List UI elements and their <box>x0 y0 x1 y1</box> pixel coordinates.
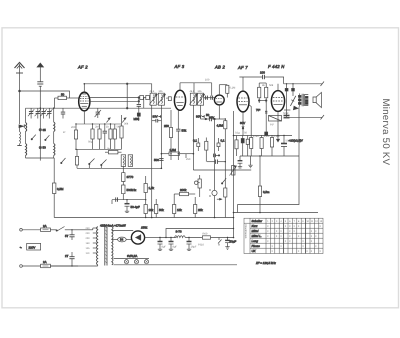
svg-text:×: × <box>293 224 295 228</box>
resistor 50k <box>91 124 94 149</box>
svg-text:×: × <box>276 234 278 238</box>
svg-text:500kHz: 500kHz <box>127 188 137 192</box>
antenna coupling line <box>39 86 41 160</box>
wire B+ bypass <box>166 229 234 238</box>
IF transformer T1 <box>149 93 165 105</box>
wire cath <box>277 111 279 135</box>
resistor 1,5m <box>250 135 253 156</box>
svg-text:0,1: 0,1 <box>221 139 225 143</box>
capacitor 0,1uF ps <box>225 238 230 250</box>
svg-text:30k: 30k <box>124 123 129 126</box>
svg-text:6V/0,5A: 6V/0,5A <box>127 254 137 258</box>
resistor 100k pot <box>195 175 202 197</box>
svg-text:2: 2 <box>272 220 274 223</box>
svg-text:×: × <box>302 244 304 248</box>
svg-text:50μ: 50μ <box>88 141 93 144</box>
svg-text:S-73: S-73 <box>176 230 182 234</box>
svg-text:×: × <box>315 234 317 238</box>
svg-text:×: × <box>285 224 287 228</box>
svg-text:200: 200 <box>71 126 76 129</box>
svg-text:15k: 15k <box>177 208 182 212</box>
svg-text:0,5m: 0,5m <box>263 190 270 194</box>
svg-text:0,5M: 0,5M <box>57 187 64 191</box>
wire mains to taps <box>50 228 97 266</box>
svg-text:2T: 2T <box>65 254 69 258</box>
wire row2 <box>240 155 299 157</box>
antenna 2 (earth/aux) <box>37 63 43 86</box>
svg-text:150: 150 <box>86 242 91 245</box>
svg-text:×: × <box>280 244 282 248</box>
electrolytic 16uF b <box>187 238 192 251</box>
svg-text:2A: 2A <box>43 260 47 264</box>
resistor 5k <box>113 124 116 149</box>
svg-text:50: 50 <box>43 146 47 150</box>
switch S3 <box>101 160 107 169</box>
svg-text:1561: 1561 <box>141 226 148 230</box>
svg-text:125: 125 <box>86 247 91 250</box>
IFT labels <box>150 90 208 100</box>
svg-text:Kurz: Kurz <box>252 224 258 228</box>
wire speaker frame top <box>284 82 324 87</box>
svg-text:11: 11 <box>311 220 314 223</box>
svg-text:Mittel: Mittel <box>252 229 259 233</box>
wire AF2 top to IFT <box>84 84 151 93</box>
svg-text:×: × <box>311 239 313 243</box>
lamp 3 <box>144 260 148 264</box>
svg-text:305: 305 <box>159 90 164 93</box>
power input terminals <box>20 229 23 268</box>
wire screen feed <box>126 83 128 109</box>
svg-text:×: × <box>306 249 308 253</box>
capacitor blk <box>241 136 244 157</box>
svg-text:×: × <box>315 229 317 233</box>
svg-text:1,2m: 1,2m <box>264 135 270 138</box>
HT oval 54 <box>112 237 132 242</box>
capacitor 0,1 b <box>217 138 220 151</box>
svg-text:110: 110 <box>86 252 90 255</box>
svg-text:4k: 4k <box>262 84 265 87</box>
electrolytic 16uF <box>169 238 174 251</box>
trimmer capacitor C2 <box>35 108 41 118</box>
wire AF2 anode row <box>90 98 150 109</box>
svg-text:×: × <box>285 239 287 243</box>
svg-text:AF 3: AF 3 <box>174 64 185 69</box>
svg-text:×: × <box>311 234 313 238</box>
svg-text:12: 12 <box>315 220 318 223</box>
capacitor 50uF out <box>284 116 290 119</box>
svg-text:70²: 70² <box>256 108 260 112</box>
svg-text:4²: 4² <box>63 131 65 134</box>
lamp 2 <box>134 260 138 264</box>
svg-text:ZF = 128,5 kHz: ZF = 128,5 kHz <box>255 261 276 265</box>
trimmer capacitor C1 <box>28 108 34 118</box>
resistor 1k <box>109 124 112 149</box>
svg-text:46,5: 46,5 <box>150 90 155 93</box>
capacitor 0,1 <box>103 124 107 149</box>
electrolytic 50uF osc <box>125 200 130 213</box>
resistor 5k h <box>105 151 122 154</box>
heater wires <box>114 259 238 265</box>
resistor AVC 0,1M <box>205 138 208 162</box>
wire AF2 grid line <box>90 101 140 103</box>
svg-text:F610: F610 <box>198 244 204 247</box>
switch mains <box>56 227 78 232</box>
svg-text:50: 50 <box>206 113 210 117</box>
svg-text:×: × <box>311 229 313 233</box>
fuse F2 <box>22 264 78 268</box>
capacitor 50k <box>176 111 180 154</box>
svg-text:6: 6 <box>289 220 291 223</box>
svg-text:0,1M: 0,1M <box>230 87 236 90</box>
phono jack <box>209 190 217 196</box>
svg-text:UK: UK <box>252 249 257 253</box>
svg-text:×: × <box>280 234 282 238</box>
svg-text:×: × <box>289 234 291 238</box>
svg-text:0,1: 0,1 <box>193 139 197 143</box>
resistor 50k g <box>258 83 261 103</box>
wire jack drop <box>214 118 216 217</box>
resistor 50 (antenna series) <box>55 96 79 108</box>
capacitor 50c <box>246 136 249 157</box>
capacitor stack M58 <box>137 97 141 121</box>
wire AF7 cathode drop <box>242 112 244 136</box>
choke <box>175 236 203 238</box>
svg-text:5: 5 <box>285 220 287 223</box>
tone pot <box>284 96 298 110</box>
svg-text:1,5M: 1,5M <box>170 148 177 152</box>
svg-text:×: × <box>298 234 300 238</box>
wire af3 drops2 <box>171 154 186 160</box>
wire IFT drops <box>152 105 201 217</box>
svg-text:100: 100 <box>205 79 210 82</box>
speaker <box>313 92 321 107</box>
resistor 2k jack <box>224 162 227 218</box>
resistor 15k <box>173 194 176 218</box>
svg-text:2A: 2A <box>43 224 47 228</box>
svg-text:90V ⊣: 90V ⊣ <box>153 114 162 118</box>
capacitor line1 <box>69 230 74 240</box>
capacitor 0,1uF <box>270 135 273 156</box>
svg-text:220: 220 <box>86 232 91 235</box>
wire cathode bus <box>76 123 122 125</box>
svg-text:4: 4 <box>280 220 282 223</box>
oscillator coil box S770 <box>121 155 132 200</box>
svg-text:250: 250 <box>164 124 169 128</box>
feedback cap b <box>292 84 295 96</box>
tube AF2 <box>79 84 90 111</box>
svg-text:54: 54 <box>120 238 124 242</box>
rectifier tube 1561 <box>112 231 145 245</box>
svg-text:10: 10 <box>306 220 309 223</box>
resistor 250 <box>169 110 172 154</box>
switch S4 <box>61 158 66 164</box>
svg-text:8: 8 <box>298 220 300 223</box>
transformer taps <box>93 228 98 253</box>
lamp 1 <box>124 260 128 264</box>
svg-text:200: 200 <box>86 237 91 240</box>
tube AF7 <box>237 77 249 112</box>
coil L6 <box>129 156 132 165</box>
tube AB2 <box>214 85 224 105</box>
ground sym <box>248 156 252 168</box>
wire osc lower row <box>112 199 146 201</box>
table <box>244 218 323 253</box>
svg-text:×: × <box>276 229 278 233</box>
resistor R60 <box>202 236 233 239</box>
coupling cap AF3 <box>168 97 171 101</box>
band switch S1a <box>31 135 36 140</box>
svg-text:×: × <box>302 239 304 243</box>
trimmer capacitor C3 <box>40 108 46 118</box>
resistor 1,2m <box>260 135 263 156</box>
svg-text:2M: 2M <box>95 126 99 129</box>
wire speaker frame bottom <box>284 115 324 120</box>
svg-text:16μF: 16μF <box>191 246 197 249</box>
ground arrow F442N <box>277 136 280 142</box>
resistor 0,5m riser <box>258 156 261 213</box>
svg-text:×: × <box>267 224 269 228</box>
resistor cath <box>269 116 282 122</box>
svg-text:Drucktasten: Drucktasten <box>244 225 247 239</box>
svg-text:50k: 50k <box>159 208 164 212</box>
svg-text:305: 305 <box>198 90 203 93</box>
resistor 2M <box>75 149 78 168</box>
coil L1 <box>26 108 27 158</box>
svg-text:50μF: 50μF <box>283 112 289 115</box>
wire row <box>234 135 293 137</box>
jack pin arrow <box>217 198 222 200</box>
resistor 0,5M <box>53 158 56 218</box>
svg-text:10k: 10k <box>149 208 154 212</box>
capacitor 50 det <box>201 117 226 121</box>
wire <box>83 111 85 124</box>
capacitor 110b <box>146 95 150 99</box>
svg-text:×: × <box>319 224 321 228</box>
capacitor line2 <box>69 252 74 266</box>
svg-text:500: 500 <box>154 158 159 162</box>
svg-text:4,5M: 4,5M <box>217 124 224 128</box>
resistor 0,1M g <box>265 83 268 103</box>
svg-text:5k: 5k <box>117 126 120 129</box>
output transformer <box>298 93 303 106</box>
svg-text:220V: 220V <box>29 245 36 249</box>
svg-text:AB 2: AB 2 <box>214 64 225 69</box>
svg-text:80V: 80V <box>240 121 245 125</box>
wave trap coil <box>17 127 21 145</box>
svg-text:M58: M58 <box>134 117 140 121</box>
resistor 25k <box>194 197 197 218</box>
resistor 4,5M <box>224 119 227 162</box>
table x marks <box>267 224 321 253</box>
IF transformer T2 <box>190 93 205 105</box>
svg-text:×: × <box>267 229 269 233</box>
wire tuning rail <box>26 107 172 109</box>
tube AF3 <box>174 83 185 111</box>
wire mid feed <box>193 169 251 171</box>
svg-text:AF 2: AF 2 <box>77 64 88 69</box>
svg-text:×: × <box>267 239 269 243</box>
wire AB2 cathode <box>218 105 220 119</box>
trimmer capacitor C4 <box>46 108 52 118</box>
fuse F1 <box>22 228 56 232</box>
svg-text:50k: 50k <box>269 84 274 87</box>
capacitor 500 <box>159 159 163 161</box>
svg-text:1,5m: 1,5m <box>253 135 259 138</box>
resistor 50k b <box>155 199 158 218</box>
capacitor 110a <box>140 95 144 99</box>
switch arrow b <box>122 118 126 123</box>
svg-text:9: 9 <box>302 220 304 223</box>
svg-text:250: 250 <box>186 158 191 161</box>
svg-text:90V ⊣: 90V ⊣ <box>196 114 205 118</box>
wire B+ bus <box>234 212 319 214</box>
svg-text:100: 100 <box>260 71 265 75</box>
capacitor 100 <box>263 75 270 79</box>
svg-text:S770: S770 <box>127 175 134 179</box>
svg-text:50k: 50k <box>182 129 187 133</box>
svg-text:Minerva 50 KV: Minerva 50 KV <box>380 99 391 166</box>
svg-text:Lang: Lang <box>252 239 259 243</box>
capacitor 0,1 a <box>197 138 200 151</box>
resistor 200k h <box>174 192 195 195</box>
svg-text:×: × <box>271 244 273 248</box>
svg-text:×: × <box>311 249 313 253</box>
svg-text:×: × <box>319 249 321 253</box>
capacitor IFT foot <box>152 119 162 123</box>
svg-text:25k: 25k <box>198 208 203 212</box>
volume pot <box>230 166 237 176</box>
svg-text:1k: 1k <box>106 126 109 129</box>
resistor 100k <box>219 85 229 98</box>
svg-text:×: × <box>267 234 269 238</box>
svg-text:8μF: 8μF <box>173 246 178 249</box>
switch det <box>221 178 226 184</box>
svg-text:8b: 8b <box>166 97 169 100</box>
wire top coupling row <box>239 76 262 78</box>
wire tuning bottom <box>26 157 55 159</box>
capacitor 10 <box>112 197 118 204</box>
svg-text:7: 7 <box>294 220 296 223</box>
svg-text:13: 13 <box>320 220 323 223</box>
svg-text:200k: 200k <box>180 188 187 192</box>
svg-text:50μF: 50μF <box>230 240 237 244</box>
svg-text:50: 50 <box>61 92 65 96</box>
svg-text:415V 4mA +170mW: 415V 4mA +170mW <box>100 224 126 228</box>
capacitor 50uF b <box>281 135 287 156</box>
capacitor pad2 <box>61 108 65 118</box>
wire g row <box>259 82 266 84</box>
wire AF7 screen riser <box>233 111 235 238</box>
coil L5 <box>122 156 125 165</box>
svg-text:3: 3 <box>276 220 278 223</box>
svg-text:×: × <box>298 224 300 228</box>
electrolytic 8uF <box>158 238 163 251</box>
svg-text:×: × <box>293 229 295 233</box>
svg-text:50: 50 <box>244 132 247 135</box>
svg-text:AF 7: AF 7 <box>237 65 248 70</box>
wire AF3 link row <box>204 83 215 100</box>
svg-text:0,1μF: 0,1μF <box>274 135 281 138</box>
wire to F442N top <box>270 77 284 84</box>
trimmer padder AF2 <box>95 108 101 118</box>
wire antenna bus <box>20 91 70 98</box>
speaker voice coil <box>304 95 308 106</box>
wire AF7 anode <box>249 105 252 136</box>
svg-text:×: × <box>271 249 273 253</box>
wire row <box>76 148 122 150</box>
resistor 300 <box>98 124 101 149</box>
power transformer <box>97 225 114 266</box>
svg-text:F6²: F6² <box>270 124 274 127</box>
AF2 labels <box>63 79 292 249</box>
coil L2 <box>54 108 55 158</box>
F442N grid join <box>258 100 267 136</box>
antenna 1 <box>15 63 25 92</box>
svg-text:×: × <box>315 244 317 248</box>
B+ switch <box>218 238 222 246</box>
wire det row <box>207 160 226 164</box>
wave trap arrow <box>19 91 24 128</box>
svg-text:65: 65 <box>43 128 47 132</box>
svg-text:×: × <box>289 224 291 228</box>
svg-text:∿: ∿ <box>20 246 23 250</box>
svg-text:×: × <box>298 249 300 253</box>
resistor 30k <box>120 115 123 149</box>
svg-text:0,1μ: 0,1μ <box>235 132 241 135</box>
band switch S1b <box>45 135 50 140</box>
svg-text:Schalter: Schalter <box>252 219 264 223</box>
B+ line <box>145 237 159 239</box>
svg-text:8μF: 8μF <box>162 246 167 249</box>
capacitor 200 <box>214 154 220 158</box>
switch S2 <box>89 159 95 169</box>
wire stub <box>237 205 239 213</box>
svg-text:Phono: Phono <box>252 244 261 248</box>
svg-text:F 442 N: F 442 N <box>268 64 285 69</box>
wire AVC bus <box>54 217 233 219</box>
resistor 1,5k <box>144 176 147 205</box>
table header digits <box>267 220 323 223</box>
wire osc bottom <box>77 167 161 169</box>
resistor 10k <box>144 205 147 218</box>
wire output return <box>238 107 300 205</box>
resistor 1,5M h <box>161 152 193 155</box>
switch arrow a <box>107 118 111 123</box>
svg-text:5T: 5T <box>65 234 69 238</box>
wire AF3 top loop <box>180 82 212 84</box>
feedback cap a <box>285 84 288 118</box>
svg-text:×: × <box>289 229 291 233</box>
voltage box 220V <box>20 234 69 258</box>
svg-text:×: × <box>289 239 291 243</box>
resistor 200 <box>74 124 77 149</box>
svg-text:50·4μF: 50·4μF <box>131 205 140 209</box>
svg-text:R60: R60 <box>203 233 208 236</box>
svg-text:50μF: 50μF <box>286 140 292 143</box>
svg-text:1: 1 <box>267 220 269 223</box>
capacitor 50uF low <box>238 156 243 168</box>
svg-text:Mittel L.: Mittel L. <box>252 234 262 238</box>
svg-text:×: × <box>280 229 282 233</box>
tube F442N <box>271 84 284 112</box>
resistor 0,3m <box>235 136 238 157</box>
